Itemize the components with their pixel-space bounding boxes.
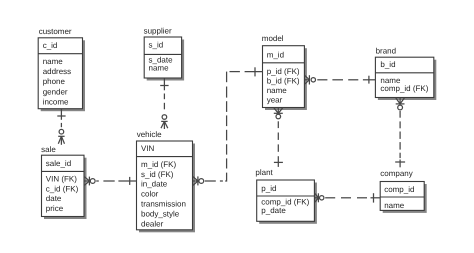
svg-text:c_id (FK): c_id (FK): [46, 184, 79, 193]
svg-text:brand: brand: [376, 47, 396, 56]
relationship vehicle-sale: [85, 177, 137, 186]
svg-text:m_id: m_id: [267, 50, 284, 59]
svg-text:plant: plant: [255, 168, 273, 177]
svg-text:address: address: [43, 67, 71, 76]
relationship supplier-vehicle: [160, 79, 168, 130]
svg-text:phone: phone: [43, 77, 66, 86]
svg-text:s_id (FK): s_id (FK): [141, 170, 174, 179]
svg-text:name: name: [267, 86, 288, 95]
entity vehicle: [137, 130, 196, 232]
svg-text:comp_id (FK): comp_id (FK): [380, 84, 428, 93]
relationship model-brand: [305, 75, 376, 84]
svg-text:comp_id: comp_id: [384, 185, 414, 194]
svg-text:color: color: [141, 190, 159, 199]
svg-text:sale: sale: [41, 145, 56, 154]
svg-text:supplier: supplier: [144, 26, 172, 35]
svg-text:sale_id: sale_id: [46, 159, 71, 168]
svg-text:p_date: p_date: [261, 206, 286, 215]
svg-text:company: company: [380, 169, 412, 178]
svg-text:income: income: [43, 97, 69, 106]
entity model: [262, 34, 307, 110]
svg-text:name: name: [384, 201, 405, 210]
svg-text:p_id: p_id: [261, 184, 276, 193]
svg-text:year: year: [267, 96, 283, 105]
entity supplier: [144, 26, 185, 80]
relationship plant-company: [315, 193, 380, 202]
svg-text:s_id: s_id: [149, 41, 164, 50]
svg-text:date: date: [46, 194, 62, 203]
entity brand: [375, 47, 436, 101]
svg-text:b_id (FK): b_id (FK): [267, 76, 300, 85]
relationship model-plant: [274, 108, 283, 167]
svg-text:name: name: [43, 57, 64, 66]
svg-text:b_id: b_id: [380, 60, 395, 69]
svg-text:c_id: c_id: [43, 41, 58, 50]
entity sale: [41, 145, 86, 219]
svg-text:model: model: [262, 34, 284, 43]
relationship customer-sale: [57, 109, 65, 145]
svg-text:dealer: dealer: [141, 220, 164, 229]
svg-text:in_date: in_date: [141, 180, 168, 189]
entity customer: [38, 27, 85, 111]
svg-text:m_id (FK): m_id (FK): [141, 160, 176, 169]
svg-text:gender: gender: [43, 87, 68, 96]
svg-text:customer: customer: [39, 27, 72, 36]
relationship brand-company: [395, 98, 405, 167]
entity plant: [255, 168, 317, 224]
svg-text:body_style: body_style: [141, 210, 180, 219]
svg-text:name: name: [149, 64, 170, 73]
entity company: [380, 169, 427, 213]
svg-text:vehicle: vehicle: [137, 130, 162, 139]
svg-text:transmission: transmission: [141, 200, 186, 209]
svg-text:VIN: VIN: [141, 144, 155, 153]
svg-text:price: price: [46, 204, 64, 213]
relationship vehicle-model: [193, 67, 263, 185]
svg-text:p_id (FK): p_id (FK): [267, 67, 300, 76]
svg-text:VIN (FK): VIN (FK): [46, 175, 77, 184]
